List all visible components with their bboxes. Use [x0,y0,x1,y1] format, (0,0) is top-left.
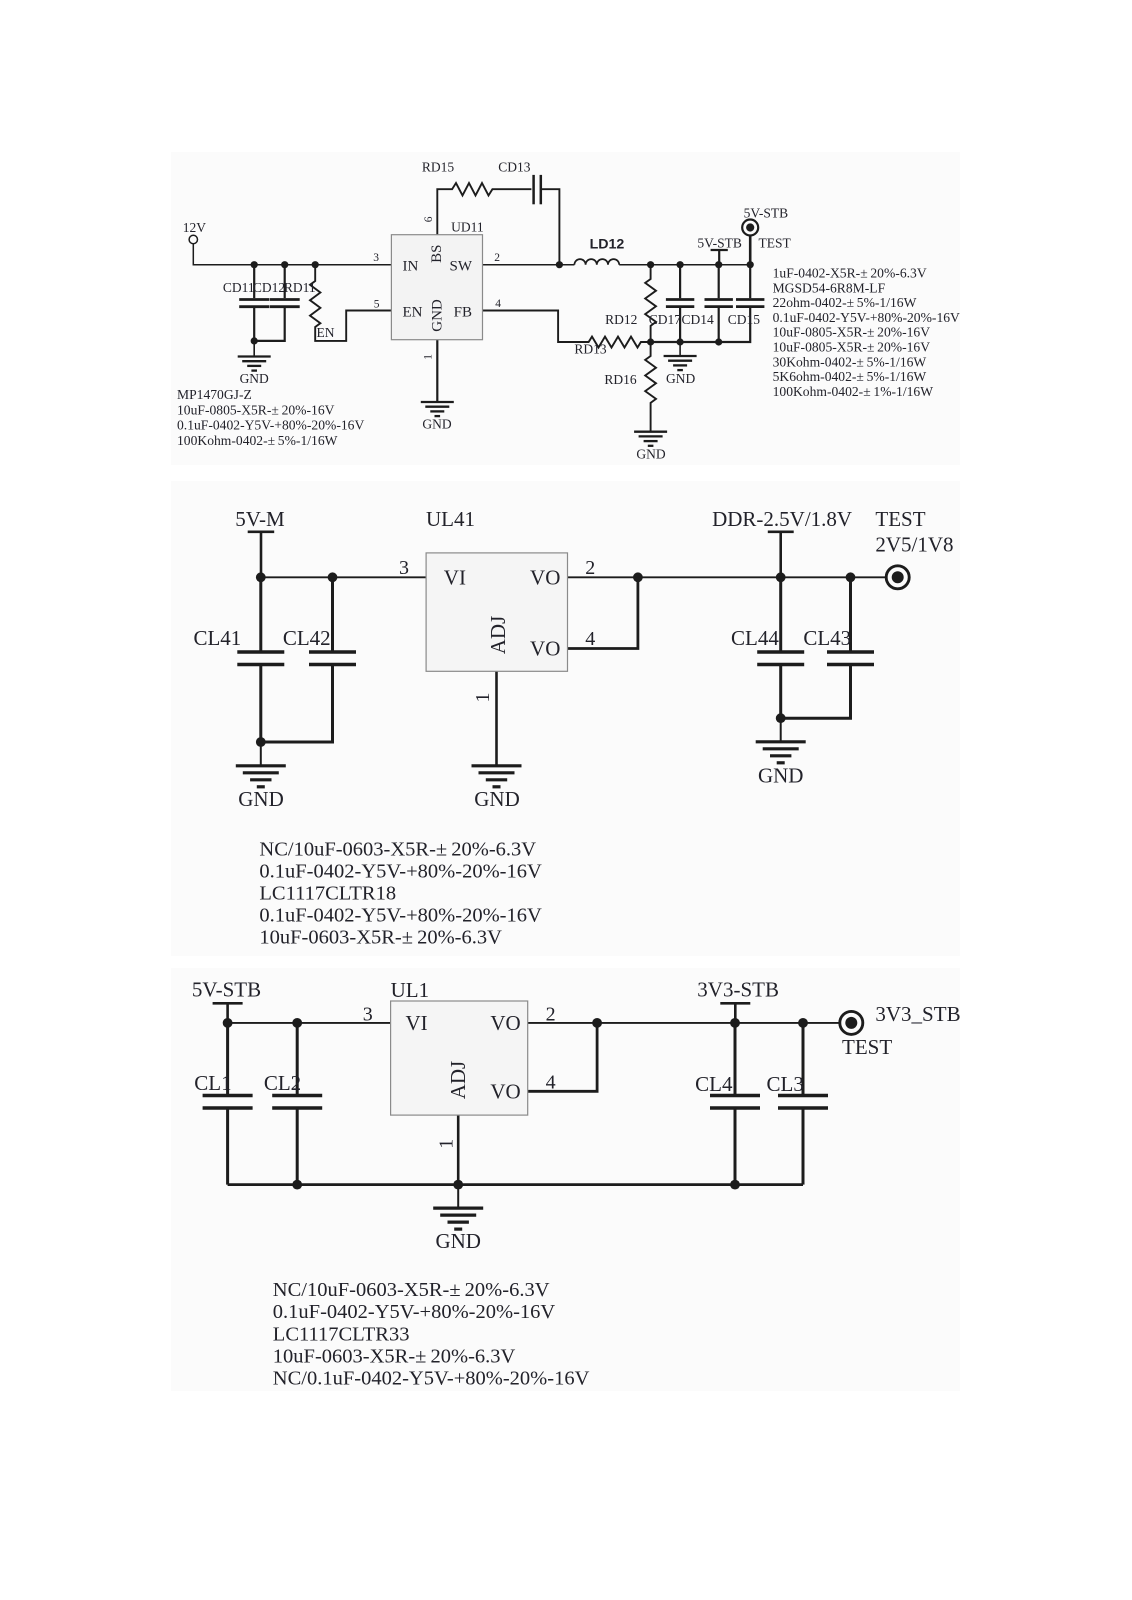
svg-text:ADJ: ADJ [446,1061,470,1100]
svg-text:6: 6 [423,216,435,222]
svg-text:CD12: CD12 [253,280,285,295]
svg-text:30Kohm-0402-± 5%-1/16W: 30Kohm-0402-± 5%-1/16W [773,354,927,369]
svg-text:10uF-0805-X5R-± 20%-16V: 10uF-0805-X5R-± 20%-16V [773,340,931,355]
svg-text:ADJ: ADJ [486,616,510,655]
svg-text:CL44: CL44 [731,626,779,650]
svg-text:TEST: TEST [842,1035,892,1059]
svg-text:3: 3 [373,252,379,264]
svg-text:SW: SW [450,259,473,275]
svg-text:VO: VO [530,565,560,589]
svg-text:3V3_STB: 3V3_STB [875,1002,960,1026]
svg-text:IN: IN [403,259,419,275]
svg-text:GND: GND [435,1229,481,1253]
svg-text:0.1uF-0402-Y5V-+80%-20%-16V: 0.1uF-0402-Y5V-+80%-20%-16V [259,905,542,927]
svg-text:22ohm-0402-± 5%-1/16W: 22ohm-0402-± 5%-1/16W [773,295,917,310]
svg-text:10uF-0805-X5R-± 20%-16V: 10uF-0805-X5R-± 20%-16V [177,402,335,417]
svg-text:VO: VO [530,637,560,661]
svg-text:3: 3 [363,1004,373,1026]
svg-text:CL2: CL2 [264,1071,301,1095]
svg-text:CL1: CL1 [194,1071,231,1095]
svg-text:VO: VO [490,1011,520,1035]
svg-text:NC/10uF-0603-X5R-± 20%-6.3V: NC/10uF-0603-X5R-± 20%-6.3V [259,838,536,860]
svg-text:NC/10uF-0603-X5R-± 20%-6.3V: NC/10uF-0603-X5R-± 20%-6.3V [273,1279,550,1301]
svg-text:GND: GND [636,447,665,462]
svg-text:CD13: CD13 [498,160,531,175]
svg-text:0.1uF-0402-Y5V-+80%-20%-16V: 0.1uF-0402-Y5V-+80%-20%-16V [259,860,542,882]
svg-text:RD16: RD16 [604,372,637,387]
svg-text:UD11: UD11 [451,220,484,235]
svg-text:GND: GND [474,787,520,811]
svg-text:VO: VO [490,1079,520,1103]
svg-text:GND: GND [422,417,451,432]
svg-text:LC1117CLTR18: LC1117CLTR18 [259,883,396,905]
svg-text:2V5/1V8: 2V5/1V8 [875,533,953,557]
svg-text:RD12: RD12 [605,312,637,327]
svg-text:1uF-0402-X5R-± 20%-6.3V: 1uF-0402-X5R-± 20%-6.3V [773,266,927,281]
svg-text:5V-STB: 5V-STB [744,206,789,221]
svg-text:GND: GND [240,371,269,386]
svg-text:TEST: TEST [875,507,925,531]
svg-text:UL41: UL41 [426,507,475,531]
svg-text:1: 1 [472,693,494,703]
svg-text:LC1117CLTR33: LC1117CLTR33 [273,1323,410,1345]
svg-text:5V-M: 5V-M [235,507,285,531]
svg-text:UL1: UL1 [391,978,430,1002]
svg-text:DDR-2.5V/1.8V: DDR-2.5V/1.8V [712,507,852,531]
svg-text:TEST: TEST [759,236,792,251]
svg-text:CD17: CD17 [649,312,682,327]
svg-text:10uF-0603-X5R-± 20%-6.3V: 10uF-0603-X5R-± 20%-6.3V [273,1345,516,1367]
svg-text:RD15: RD15 [422,160,455,175]
svg-text:FB: FB [454,304,472,320]
svg-text:BS: BS [429,245,445,263]
svg-text:CL4: CL4 [695,1072,733,1096]
svg-text:EN: EN [317,325,335,340]
svg-text:GND: GND [429,299,445,332]
svg-text:10uF-0603-X5R-± 20%-6.3V: 10uF-0603-X5R-± 20%-6.3V [259,927,502,949]
svg-text:VI: VI [444,565,466,589]
svg-text:12V: 12V [183,220,207,235]
svg-text:100Kohm-0402-± 1%-1/16W: 100Kohm-0402-± 1%-1/16W [773,384,934,399]
svg-text:GND: GND [238,787,284,811]
svg-text:3: 3 [399,557,409,579]
svg-text:1: 1 [435,1139,457,1149]
svg-text:LD12: LD12 [590,237,625,253]
svg-text:RD11: RD11 [284,280,316,295]
svg-text:MGSD54-6R8M-LF: MGSD54-6R8M-LF [773,280,886,295]
svg-text:4: 4 [546,1072,556,1094]
svg-text:CD11: CD11 [223,280,255,295]
svg-text:2: 2 [494,252,500,264]
svg-text:0.1uF-0402-Y5V-+80%-20%-16V: 0.1uF-0402-Y5V-+80%-20%-16V [177,418,364,433]
svg-text:MP1470GJ-Z: MP1470GJ-Z [177,387,252,402]
svg-text:GND: GND [666,371,695,386]
svg-text:CD15: CD15 [728,312,761,327]
svg-text:5V-STB: 5V-STB [192,978,261,1002]
svg-text:5: 5 [374,299,380,311]
svg-text:100Kohm-0402-± 5%-1/16W: 100Kohm-0402-± 5%-1/16W [177,433,338,448]
svg-text:CL43: CL43 [803,626,851,650]
svg-text:CL3: CL3 [767,1072,804,1096]
svg-text:2: 2 [585,557,595,579]
svg-text:4: 4 [495,298,501,310]
svg-text:CD14: CD14 [682,312,715,327]
svg-text:10uF-0805-X5R-± 20%-16V: 10uF-0805-X5R-± 20%-16V [773,325,931,340]
svg-text:5K6ohm-0402-± 5%-1/16W: 5K6ohm-0402-± 5%-1/16W [773,369,927,384]
svg-text:0.1uF-0402-Y5V-+80%-20%-16V: 0.1uF-0402-Y5V-+80%-20%-16V [273,1301,556,1323]
svg-text:1: 1 [423,354,435,360]
svg-text:NC/0.1uF-0402-Y5V-+80%-20%-16V: NC/0.1uF-0402-Y5V-+80%-20%-16V [273,1368,590,1390]
svg-text:VI: VI [406,1011,428,1035]
svg-text:2: 2 [546,1004,556,1026]
svg-text:3V3-STB: 3V3-STB [697,978,779,1002]
svg-text:4: 4 [585,628,595,650]
svg-text:RD13: RD13 [574,342,607,357]
svg-text:CL41: CL41 [193,626,241,650]
svg-text:CL42: CL42 [283,626,331,650]
svg-text:GND: GND [758,763,804,787]
svg-text:EN: EN [403,304,423,320]
svg-text:0.1uF-0402-Y5V-+80%-20%-16V: 0.1uF-0402-Y5V-+80%-20%-16V [773,310,960,325]
svg-text:5V-STB: 5V-STB [697,236,742,251]
